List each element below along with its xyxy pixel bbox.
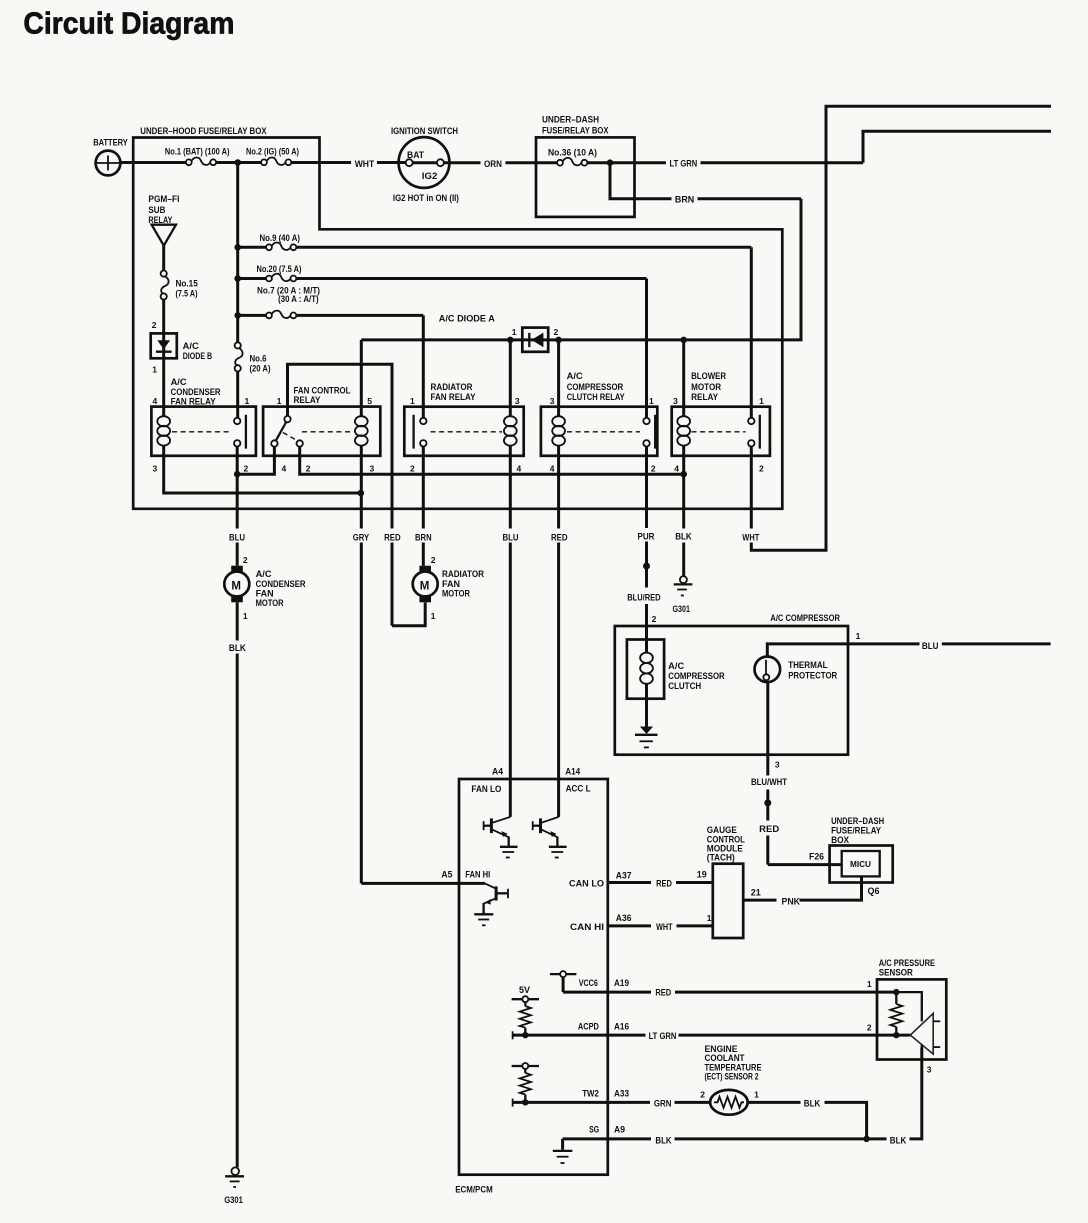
svg-text:2: 2	[867, 1022, 872, 1032]
svg-text:RED: RED	[551, 532, 568, 542]
svg-text:GRN: GRN	[654, 1098, 672, 1108]
svg-text:MOTOR: MOTOR	[442, 588, 470, 598]
svg-text:BLU: BLU	[503, 532, 519, 542]
svg-text:RED: RED	[384, 532, 401, 542]
wire battery to fuse No.1	[120, 161, 186, 164]
svg-text:SG: SG	[589, 1125, 599, 1135]
svg-text:ORN: ORN	[484, 159, 502, 169]
svg-text:No.36 (10 A): No.36 (10 A)	[548, 147, 597, 157]
wire PUR clutch contact pin 2 down to compressor	[645, 446, 648, 528]
wire condenser coil pin 3 bus to GRY	[164, 446, 361, 493]
wire thermal protector pin 1 BLU out right	[767, 644, 919, 657]
svg-text:2: 2	[554, 327, 559, 337]
svg-text:CONDENSER: CONDENSER	[256, 579, 306, 589]
A/C compressor clutch coil	[627, 640, 725, 727]
svg-text:BLU/RED: BLU/RED	[627, 592, 661, 602]
svg-text:RELAY: RELAY	[691, 392, 718, 402]
wire blower coil pin 3	[682, 340, 685, 417]
svg-text:MOTOR: MOTOR	[256, 598, 284, 608]
svg-text:BATTERY: BATTERY	[93, 137, 128, 147]
wire fan control pin 2 ground bus to blower coil pin 4	[300, 447, 684, 475]
svg-text:2: 2	[759, 463, 764, 473]
svg-text:A5: A5	[441, 870, 452, 880]
svg-text:PUR: PUR	[638, 531, 655, 541]
PGM-FI sub relay	[148, 194, 179, 245]
node No.9 branch	[234, 244, 241, 251]
svg-text:No.20 (7.5 A): No.20 (7.5 A)	[257, 264, 302, 274]
svg-text:Circuit Diagram: Circuit Diagram	[23, 6, 234, 41]
fuse No.2 (IG) (50 A)	[246, 146, 299, 165]
svg-text:COMPRESSOR: COMPRESSOR	[567, 382, 624, 392]
svg-text:No.6: No.6	[250, 353, 267, 363]
svg-text:2: 2	[700, 1090, 705, 1100]
svg-text:4: 4	[674, 463, 679, 473]
svg-text:A/C: A/C	[567, 371, 584, 381]
svg-text:VCC6: VCC6	[579, 978, 598, 988]
svg-text:ACPD: ACPD	[578, 1022, 599, 1032]
wire BLU radiator coil pin 4 down to ECM A4	[509, 446, 512, 529]
wire No.20 down to A/C compressor clutch relay pin 1	[645, 279, 648, 418]
svg-text:BLK: BLK	[804, 1098, 821, 1108]
svg-text:DIODE B: DIODE B	[183, 351, 213, 361]
relay blower motor relay	[672, 371, 770, 473]
A/C compressor box	[615, 613, 848, 755]
wire CAN LO A37 to gauge module pin 19	[608, 881, 651, 884]
A/C diode A	[439, 313, 559, 352]
MICU box	[842, 851, 880, 876]
svg-text:2: 2	[410, 463, 415, 473]
under-dash fuse/relay box (top)	[536, 114, 635, 217]
svg-text:FUSE/RELAY BOX: FUSE/RELAY BOX	[542, 125, 609, 135]
node TW2 pull-up junction	[522, 1099, 528, 1105]
ECM/PCM box	[455, 779, 608, 1194]
svg-text:RADIATOR: RADIATOR	[442, 569, 484, 579]
wire TW2 A33 GRN row to ECT sensor	[512, 1099, 514, 1107]
svg-text:A36: A36	[616, 913, 632, 923]
ignition switch	[391, 126, 459, 203]
transistor FAN LO	[484, 779, 518, 858]
svg-text:MICU: MICU	[850, 859, 871, 869]
svg-text:A/C DIODE A: A/C DIODE A	[439, 313, 496, 323]
svg-text:Q6: Q6	[868, 886, 880, 896]
sensor internal resistor	[890, 989, 902, 1038]
node No.7 branch	[234, 312, 241, 319]
svg-text:PGM–FI: PGM–FI	[148, 194, 179, 204]
svg-text:A/C PRESSURE: A/C PRESSURE	[879, 958, 935, 968]
svg-text:G301: G301	[673, 604, 691, 614]
svg-text:1: 1	[867, 979, 872, 989]
svg-text:RED: RED	[759, 824, 780, 834]
svg-text:FAN RELAY: FAN RELAY	[171, 397, 216, 407]
node radiator coil pin 3 on BRN line	[507, 337, 514, 344]
svg-text:4: 4	[517, 463, 522, 473]
svg-text:BRN: BRN	[415, 532, 432, 542]
relay A/C condenser fan relay	[151, 377, 256, 473]
svg-text:5V: 5V	[519, 985, 530, 995]
node clutch coil pin 3 on BRN line	[555, 337, 562, 344]
node connector on PUR wire	[643, 563, 650, 570]
svg-text:1: 1	[512, 327, 517, 337]
svg-text:FAN CONTROL: FAN CONTROL	[294, 385, 351, 395]
fuse No.20 (7.5 A) row	[238, 264, 647, 282]
wire fuse1 to fuse2	[216, 161, 261, 164]
svg-text:2: 2	[431, 555, 436, 565]
svg-text:(ECT) SENSOR 2: (ECT) SENSOR 2	[705, 1072, 759, 1082]
svg-text:2: 2	[244, 463, 249, 473]
wire BRN from under-dash box	[610, 163, 672, 199]
svg-text:UNDER–DASH: UNDER–DASH	[831, 816, 884, 826]
svg-text:3: 3	[775, 759, 780, 769]
fuse No.7 row	[238, 285, 424, 318]
svg-text:2: 2	[306, 463, 311, 473]
svg-text:MOTOR: MOTOR	[691, 382, 721, 392]
svg-text:A/C COMPRESSOR: A/C COMPRESSOR	[770, 613, 840, 623]
wire fan control relay pin 1 riser to RED drop	[288, 364, 393, 528]
svg-text:4: 4	[550, 463, 555, 473]
TW2 pull-up with resistor	[512, 1063, 539, 1102]
wire BLK blower coil pin 4 to G301	[682, 446, 685, 529]
svg-text:2: 2	[152, 320, 157, 330]
transistor ACC L	[533, 779, 567, 858]
svg-text:ECM/PCM: ECM/PCM	[455, 1184, 493, 1194]
wire MICU Q6 to PNK	[800, 876, 862, 900]
wire fuse No.15 to A/C diode B and condenser relay pin 4	[162, 300, 165, 417]
A/C diode B	[151, 333, 213, 361]
wire CAN HI A36 to gauge module pin 1	[608, 924, 651, 927]
sensor internal amplifier	[896, 992, 940, 1054]
svg-text:1: 1	[754, 1090, 759, 1100]
svg-text:BLU: BLU	[922, 641, 939, 651]
svg-text:M: M	[231, 581, 241, 593]
fuse No.15 (7.5 A)	[161, 271, 198, 300]
svg-text:BLK: BLK	[675, 531, 692, 541]
node GRY junction on pin3 bus	[358, 490, 365, 497]
junction node main feed	[234, 159, 241, 166]
motor radiator fan motor	[413, 555, 485, 621]
svg-text:GRY: GRY	[353, 532, 369, 542]
ground G301 blower	[673, 576, 693, 614]
svg-text:RADIATOR: RADIATOR	[431, 382, 473, 392]
svg-text:PROTECTOR: PROTECTOR	[788, 671, 837, 681]
wire sub relay to fuse No.15	[162, 246, 165, 271]
svg-text:2: 2	[652, 614, 657, 624]
svg-text:F26: F26	[809, 851, 824, 861]
svg-text:FAN: FAN	[442, 579, 460, 589]
svg-text:CONDENSER: CONDENSER	[171, 387, 221, 397]
svg-text:19: 19	[697, 869, 707, 879]
svg-text:3: 3	[550, 396, 555, 406]
svg-text:BLOWER: BLOWER	[691, 371, 726, 381]
wire thermal protector pin 3 BLU/WHT down	[766, 682, 769, 775]
svg-text:BLU/WHT: BLU/WHT	[751, 777, 787, 787]
svg-text:WHT: WHT	[355, 159, 375, 169]
svg-text:ACC L: ACC L	[566, 784, 591, 794]
svg-text:FAN: FAN	[256, 588, 274, 598]
under-hood fuse/relay box outline	[133, 126, 782, 509]
svg-text:PNK: PNK	[782, 896, 801, 906]
wire BRN radiator contact pin 2 to radiator fan motor pin 2	[422, 446, 425, 528]
svg-text:No.9 (40 A): No.9 (40 A)	[260, 233, 301, 243]
svg-text:LT GRN: LT GRN	[670, 159, 698, 169]
wire condenser contact pin 2 BLU drop	[236, 446, 239, 528]
svg-text:1: 1	[759, 396, 764, 406]
svg-text:1: 1	[707, 913, 712, 923]
svg-text:A19: A19	[614, 978, 629, 988]
svg-text:A/C: A/C	[668, 661, 685, 671]
wire ACPD A16 LT GRN row to pressure sensor pin 2	[512, 1031, 514, 1039]
svg-text:RELAY: RELAY	[294, 395, 321, 405]
svg-text:M: M	[420, 581, 430, 593]
svg-text:G301: G301	[224, 1195, 243, 1205]
svg-text:BLK: BLK	[890, 1135, 907, 1145]
svg-text:A33: A33	[614, 1088, 629, 1098]
node blower coil pin 4 on ground bus	[680, 471, 687, 478]
wire WHT blower contact pin 2 up right side to top	[750, 446, 753, 528]
svg-text:UNDER–DASH: UNDER–DASH	[542, 114, 599, 124]
svg-text:2: 2	[651, 463, 656, 473]
wire link to fan control pin 4	[237, 447, 274, 475]
svg-text:BLK: BLK	[655, 1135, 672, 1145]
fuse No.6 (20 A) vertical	[235, 342, 271, 418]
5V pull-up with resistor	[512, 985, 539, 1035]
node ACPD pull-up junction	[522, 1032, 528, 1038]
wire LT GRN	[635, 161, 667, 164]
svg-text:2: 2	[243, 555, 248, 565]
fuse No.36 (10 A)	[536, 147, 635, 165]
wire BRN down right side to relay feed line	[361, 199, 801, 340]
svg-text:WHT: WHT	[656, 922, 673, 932]
svg-text:1: 1	[856, 631, 861, 641]
svg-text:(7.5 A): (7.5 A)	[176, 288, 198, 298]
svg-text:No.2 (IG) (50 A): No.2 (IG) (50 A)	[246, 146, 299, 156]
svg-text:1: 1	[431, 611, 436, 621]
svg-text:CAN HI: CAN HI	[570, 922, 604, 932]
svg-text:1: 1	[152, 364, 157, 374]
svg-text:TW2: TW2	[582, 1088, 599, 1098]
ground SG inside ECM	[553, 1139, 573, 1163]
svg-text:21: 21	[751, 887, 761, 897]
svg-text:No.1 (BAT) (100 A): No.1 (BAT) (100 A)	[165, 146, 230, 156]
svg-text:4: 4	[282, 463, 287, 473]
node blower coil pin 3 on BRN line	[680, 337, 687, 344]
svg-text:CLUTCH RELAY: CLUTCH RELAY	[567, 392, 625, 402]
svg-text:A/C: A/C	[256, 569, 273, 579]
svg-text:3: 3	[927, 1065, 932, 1075]
svg-text:A37: A37	[616, 870, 632, 880]
svg-text:BOX: BOX	[831, 835, 849, 845]
svg-text:1: 1	[649, 396, 654, 406]
svg-text:BLK: BLK	[229, 643, 246, 653]
wire WHT to ignition switch	[291, 161, 351, 164]
svg-text:WHT: WHT	[742, 532, 759, 542]
wire radiator coil pin 3	[509, 340, 512, 417]
svg-text:FAN LO: FAN LO	[471, 784, 501, 794]
svg-text:SENSOR: SENSOR	[879, 968, 913, 978]
svg-text:BAT: BAT	[407, 150, 424, 160]
gauge control module box	[707, 825, 745, 938]
node ECT ground junction	[863, 1136, 869, 1142]
svg-text:3: 3	[370, 463, 375, 473]
relay fan control relay	[263, 385, 380, 473]
svg-text:A16: A16	[614, 1022, 629, 1032]
svg-text:RED: RED	[655, 988, 671, 998]
svg-text:IGNITION SWITCH: IGNITION SWITCH	[391, 126, 458, 136]
A/C pressure sensor box	[877, 958, 946, 1059]
wire fan control coil pin 5	[360, 340, 363, 417]
wire clutch coil pin 3	[557, 340, 560, 417]
wire RED clutch coil pin 4 down to ECM A14	[557, 446, 560, 529]
main vertical feed from No.1/No.2 junction	[236, 163, 239, 343]
fuse No.9 (40 A) row	[238, 233, 752, 250]
wire ORN ignition to under-dash box	[444, 161, 480, 164]
svg-text:(20 A): (20 A)	[250, 363, 271, 373]
svg-text:3: 3	[673, 396, 678, 406]
svg-text:FAN RELAY: FAN RELAY	[431, 392, 476, 402]
junction node in under-dash box	[607, 159, 614, 166]
ECT sensor 2	[705, 1044, 762, 1115]
fuse No.1 (BAT) (100 A)	[165, 146, 230, 165]
ground G301 bottom left	[224, 1167, 244, 1205]
svg-text:CAN LO: CAN LO	[569, 879, 604, 889]
svg-text:BRN: BRN	[675, 194, 694, 204]
node No.20 branch	[234, 275, 241, 282]
svg-text:No.15: No.15	[176, 278, 198, 288]
wire LT GRN riser to top right	[863, 131, 1051, 163]
under-dash fuse/relay box (lower)	[830, 816, 893, 883]
svg-text:3: 3	[515, 396, 520, 406]
svg-text:CLUTCH: CLUTCH	[668, 681, 701, 691]
node connector on BLU/WHT wire	[764, 799, 771, 806]
svg-text:1: 1	[245, 396, 250, 406]
wire A19 RED row to pressure sensor	[563, 991, 651, 994]
svg-text:A4: A4	[492, 766, 503, 776]
svg-text:IG2 HOT in ON (II): IG2 HOT in ON (II)	[393, 193, 459, 203]
motor A/C condenser fan motor	[224, 555, 306, 621]
ground under compressor clutch	[635, 727, 658, 748]
svg-text:3: 3	[153, 463, 158, 473]
wire No.7 down to radiator fan relay pin 1	[422, 315, 425, 418]
VCC6 pull-up	[550, 971, 577, 992]
relay radiator fan relay	[404, 382, 523, 473]
svg-text:COMPRESSOR: COMPRESSOR	[668, 671, 725, 681]
svg-text:SUB: SUB	[148, 205, 165, 215]
svg-text:RED: RED	[656, 879, 672, 889]
wire RED drop to radiator fan motor pin 1	[391, 543, 394, 626]
battery	[93, 137, 128, 175]
svg-text:(TACH): (TACH)	[707, 853, 735, 863]
relay A/C compressor clutch relay	[541, 371, 657, 473]
svg-text:LT GRN: LT GRN	[649, 1031, 677, 1041]
svg-text:5: 5	[367, 396, 372, 406]
svg-text:4: 4	[153, 396, 158, 406]
svg-text:UNDER–HOOD FUSE/RELAY BOX: UNDER–HOOD FUSE/RELAY BOX	[140, 126, 266, 136]
wire SG A9 BLK row	[563, 1137, 651, 1140]
svg-text:A9: A9	[614, 1125, 625, 1135]
svg-text:A/C: A/C	[183, 341, 200, 351]
wire ECT pin 1 BLK to SG row	[748, 1101, 801, 1104]
svg-text:BLU: BLU	[229, 532, 245, 542]
svg-text:1: 1	[410, 396, 415, 406]
thermal protector	[755, 657, 838, 683]
svg-text:1: 1	[243, 611, 248, 621]
svg-text:1: 1	[277, 396, 282, 406]
wire BLK condenser motor to G301	[236, 602, 239, 640]
svg-text:(30 A : A/T): (30 A : A/T)	[278, 294, 319, 304]
svg-text:FAN HI: FAN HI	[465, 870, 490, 880]
svg-text:A/C: A/C	[171, 377, 188, 387]
svg-text:IG2: IG2	[422, 171, 438, 181]
transistor FAN HI	[474, 883, 508, 925]
svg-text:A14: A14	[565, 766, 580, 776]
svg-text:FUSE/RELAY: FUSE/RELAY	[831, 825, 881, 835]
node condenser pin2 / fan control pin4 link	[234, 471, 241, 478]
wire GRY fan control coil pin 3 down to ECM A5	[360, 446, 363, 529]
svg-text:THERMAL: THERMAL	[788, 660, 828, 670]
wire No.9 down to blower motor relay pin 1	[750, 247, 753, 418]
